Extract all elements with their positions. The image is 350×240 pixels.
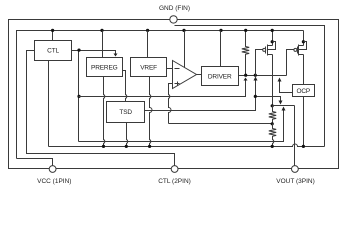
arrowhead line B up into gate node — [254, 77, 258, 81]
svg-text:DRIVER: DRIVER — [208, 73, 232, 80]
svg-text:CTL: CTL — [47, 48, 59, 55]
arrowhead into PREREG top — [114, 54, 118, 57]
node dot feedback divider — [271, 122, 274, 125]
resistor R pull-up from rail to gate line — [242, 31, 249, 76]
wire rail feed to VREF top — [147, 31, 149, 58]
wire VOUT pin vertical — [294, 106, 296, 166]
wire TSD right output line B — [145, 97, 256, 111]
wire OCP output to gate with up arrow — [280, 81, 293, 93]
node dot gate line at pull-up — [244, 74, 247, 77]
wire VREF output to op-amp inverting input — [167, 68, 173, 70]
node dot VOUT sense node — [271, 104, 274, 107]
node dot rail at Q1 — [271, 29, 274, 32]
block PREREG — [87, 58, 123, 77]
node dot rail at op-amp — [182, 29, 185, 32]
block TSD — [107, 102, 145, 123]
wire GND net from pin, right side down to ground bus — [175, 26, 325, 147]
wire DRIVER output gate-drive line — [239, 75, 287, 77]
block VREF — [131, 58, 167, 77]
svg-text:OCP: OCP — [296, 88, 310, 95]
wire rail feed to PREREG top — [102, 31, 104, 58]
wire line D horizontal to right, up to arrow at VOUT sense line — [79, 111, 284, 142]
wire branch vertical from CTL output down to line D — [78, 51, 80, 142]
transistor Q2 channel bar — [298, 45, 300, 56]
wire VCC rail (left vertical + top horizontal supply rail) — [17, 31, 304, 159]
wire Q1 drain down to VOUT node — [272, 55, 274, 106]
node dot VREF ground — [148, 145, 151, 148]
wire line C feedback to divider node — [169, 123, 273, 125]
resistor R2 feedback bottom, to ground bus with hop — [269, 124, 276, 147]
svg-text:VREF: VREF — [140, 65, 157, 72]
node dot rail at CTL — [51, 29, 54, 32]
wire OCP ground to bus — [303, 97, 305, 147]
node dot rail at pull-up resistor — [244, 29, 247, 32]
node dot PREREG ground — [102, 145, 105, 148]
wire rail feed to DRIVER top — [220, 31, 222, 67]
arrowhead OCP to gate node — [278, 78, 282, 82]
op-amp U1 triangle — [173, 61, 197, 89]
wire VOUT sense line to OCP bottom / VOUT pin — [273, 105, 295, 107]
pin VCC (1PIN) terminal — [49, 166, 56, 173]
transistor Q2 body hook — [299, 42, 307, 50]
node dot CTL output branch — [77, 49, 80, 52]
wire CTL pin routing to CTL block left input — [27, 51, 175, 166]
node dot line B junction — [254, 95, 257, 98]
node dot Q2 source — [302, 40, 305, 43]
wire op-amp output to DRIVER — [197, 74, 202, 76]
transistor Q1 source stub — [268, 45, 273, 47]
wire line B branch right, down arrow to VOUT line — [256, 97, 281, 102]
resistor R1 feedback top — [269, 106, 276, 124]
wire PREREG right output down to TSD top with hop — [123, 71, 127, 102]
wire line B branch up arrow into gate line — [255, 80, 257, 97]
pin VOUT (3PIN) terminal — [292, 166, 299, 173]
transistor Q1 drain stub — [268, 54, 273, 56]
node dot rail at VREF — [146, 29, 149, 32]
transistor Q2 PMOS main: source vertical from rail — [303, 31, 305, 46]
wire line A enable line to gate-drive node — [79, 81, 246, 97]
svg-text:PREREG: PREREG — [91, 65, 118, 72]
block CTL — [35, 41, 72, 61]
wire CTL bottom to ground bus — [48, 61, 50, 147]
transistor Q1 gate bubble — [263, 48, 266, 51]
wire CTL output right with branch node — [72, 51, 116, 54]
transistor Q1 channel bar — [267, 45, 269, 56]
wire VREF bottom to ground bus with hops — [150, 77, 153, 147]
node dot line A tap — [77, 95, 80, 98]
transistor Q2 source stub — [299, 45, 304, 47]
wire Q2 drain down into OCP top — [303, 55, 305, 85]
svg-text:TSD: TSD — [119, 109, 132, 116]
wire VCC pin connection — [17, 159, 53, 166]
node dot OCP ground on bus — [302, 145, 305, 148]
transistor Q1 gate bar — [265, 47, 267, 54]
transistor Q2 gate bubble — [294, 48, 297, 51]
outer IC boundary box — [9, 20, 339, 169]
arrowhead line A up into gate line — [244, 78, 248, 81]
pin CTL (2PIN) terminal — [171, 166, 178, 173]
op-amp plus label — [175, 82, 180, 86]
node dot rail at DRIVER — [219, 29, 222, 32]
node dot divider ground — [271, 145, 274, 148]
transistor Q2 gate bar — [297, 47, 299, 54]
wire TSD bottom to ground bus with hop — [127, 123, 128, 147]
transistor Q1 body hook — [268, 42, 276, 50]
transistor Q2 drain stub — [299, 54, 304, 56]
block OCP — [293, 85, 315, 97]
node dot gate line at PMOS1 gate lead — [254, 74, 257, 77]
wire rail feed to CTL top — [52, 31, 54, 41]
node dot TSD ground — [125, 145, 128, 148]
svg-text:VOUT (3PIN): VOUT (3PIN) — [276, 178, 315, 185]
pin GND (FIN) terminal — [170, 16, 177, 23]
arrowhead down to VOUT line — [279, 101, 283, 105]
arrowhead line D up into VOUT line — [282, 107, 286, 111]
wire rail feed to op-amp top — [184, 31, 186, 68]
wire PMOS1 gate lead — [256, 50, 263, 76]
wire PREREG bottom to ground bus with hops — [104, 77, 105, 147]
node dot rail at PREREG — [100, 29, 103, 32]
svg-text:CTL (2PIN): CTL (2PIN) — [158, 178, 191, 185]
block DRIVER — [202, 67, 239, 86]
op-amp minus label — [175, 68, 180, 70]
wire PMOS2 gate lead with corner — [287, 50, 294, 76]
svg-text:GND (FIN): GND (FIN) — [159, 5, 190, 12]
node dot Q1 source — [271, 40, 274, 43]
wire op-amp + input feedback down to line C with hops — [169, 84, 173, 124]
svg-text:VCC (1PIN): VCC (1PIN) — [37, 178, 71, 185]
wire ground bus (bottom horizontal) with hop over VOUT wire — [49, 144, 325, 147]
transistor Q1 PMOS sense: source vertical from rail — [272, 31, 274, 46]
